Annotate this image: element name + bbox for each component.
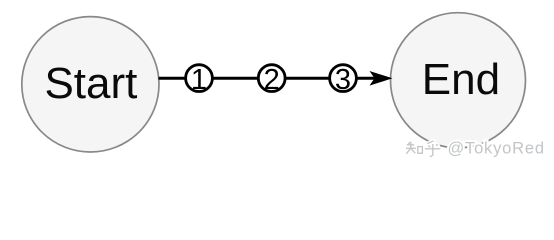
svg-text:@TokyoRed: @TokyoRed (448, 140, 545, 158)
node End (ellipse) (391, 13, 526, 148)
svg-text:End: End (422, 55, 500, 104)
node 1 (small circle) (186, 65, 213, 92)
node 2 (small circle) (258, 65, 285, 92)
watermark 知 (406, 142, 422, 154)
node 3 (small circle) (330, 65, 357, 92)
watermark 乎 (425, 141, 441, 157)
svg-text:1: 1 (191, 64, 207, 96)
svg-text:3: 3 (335, 64, 351, 96)
arrowhead (370, 71, 393, 86)
node Start (ellipse) (22, 17, 159, 152)
watermark white glow casing (406, 141, 440, 157)
wire main edge line (159, 77, 377, 80)
svg-text:Start: Start (44, 59, 137, 108)
svg-text:2: 2 (264, 64, 280, 96)
